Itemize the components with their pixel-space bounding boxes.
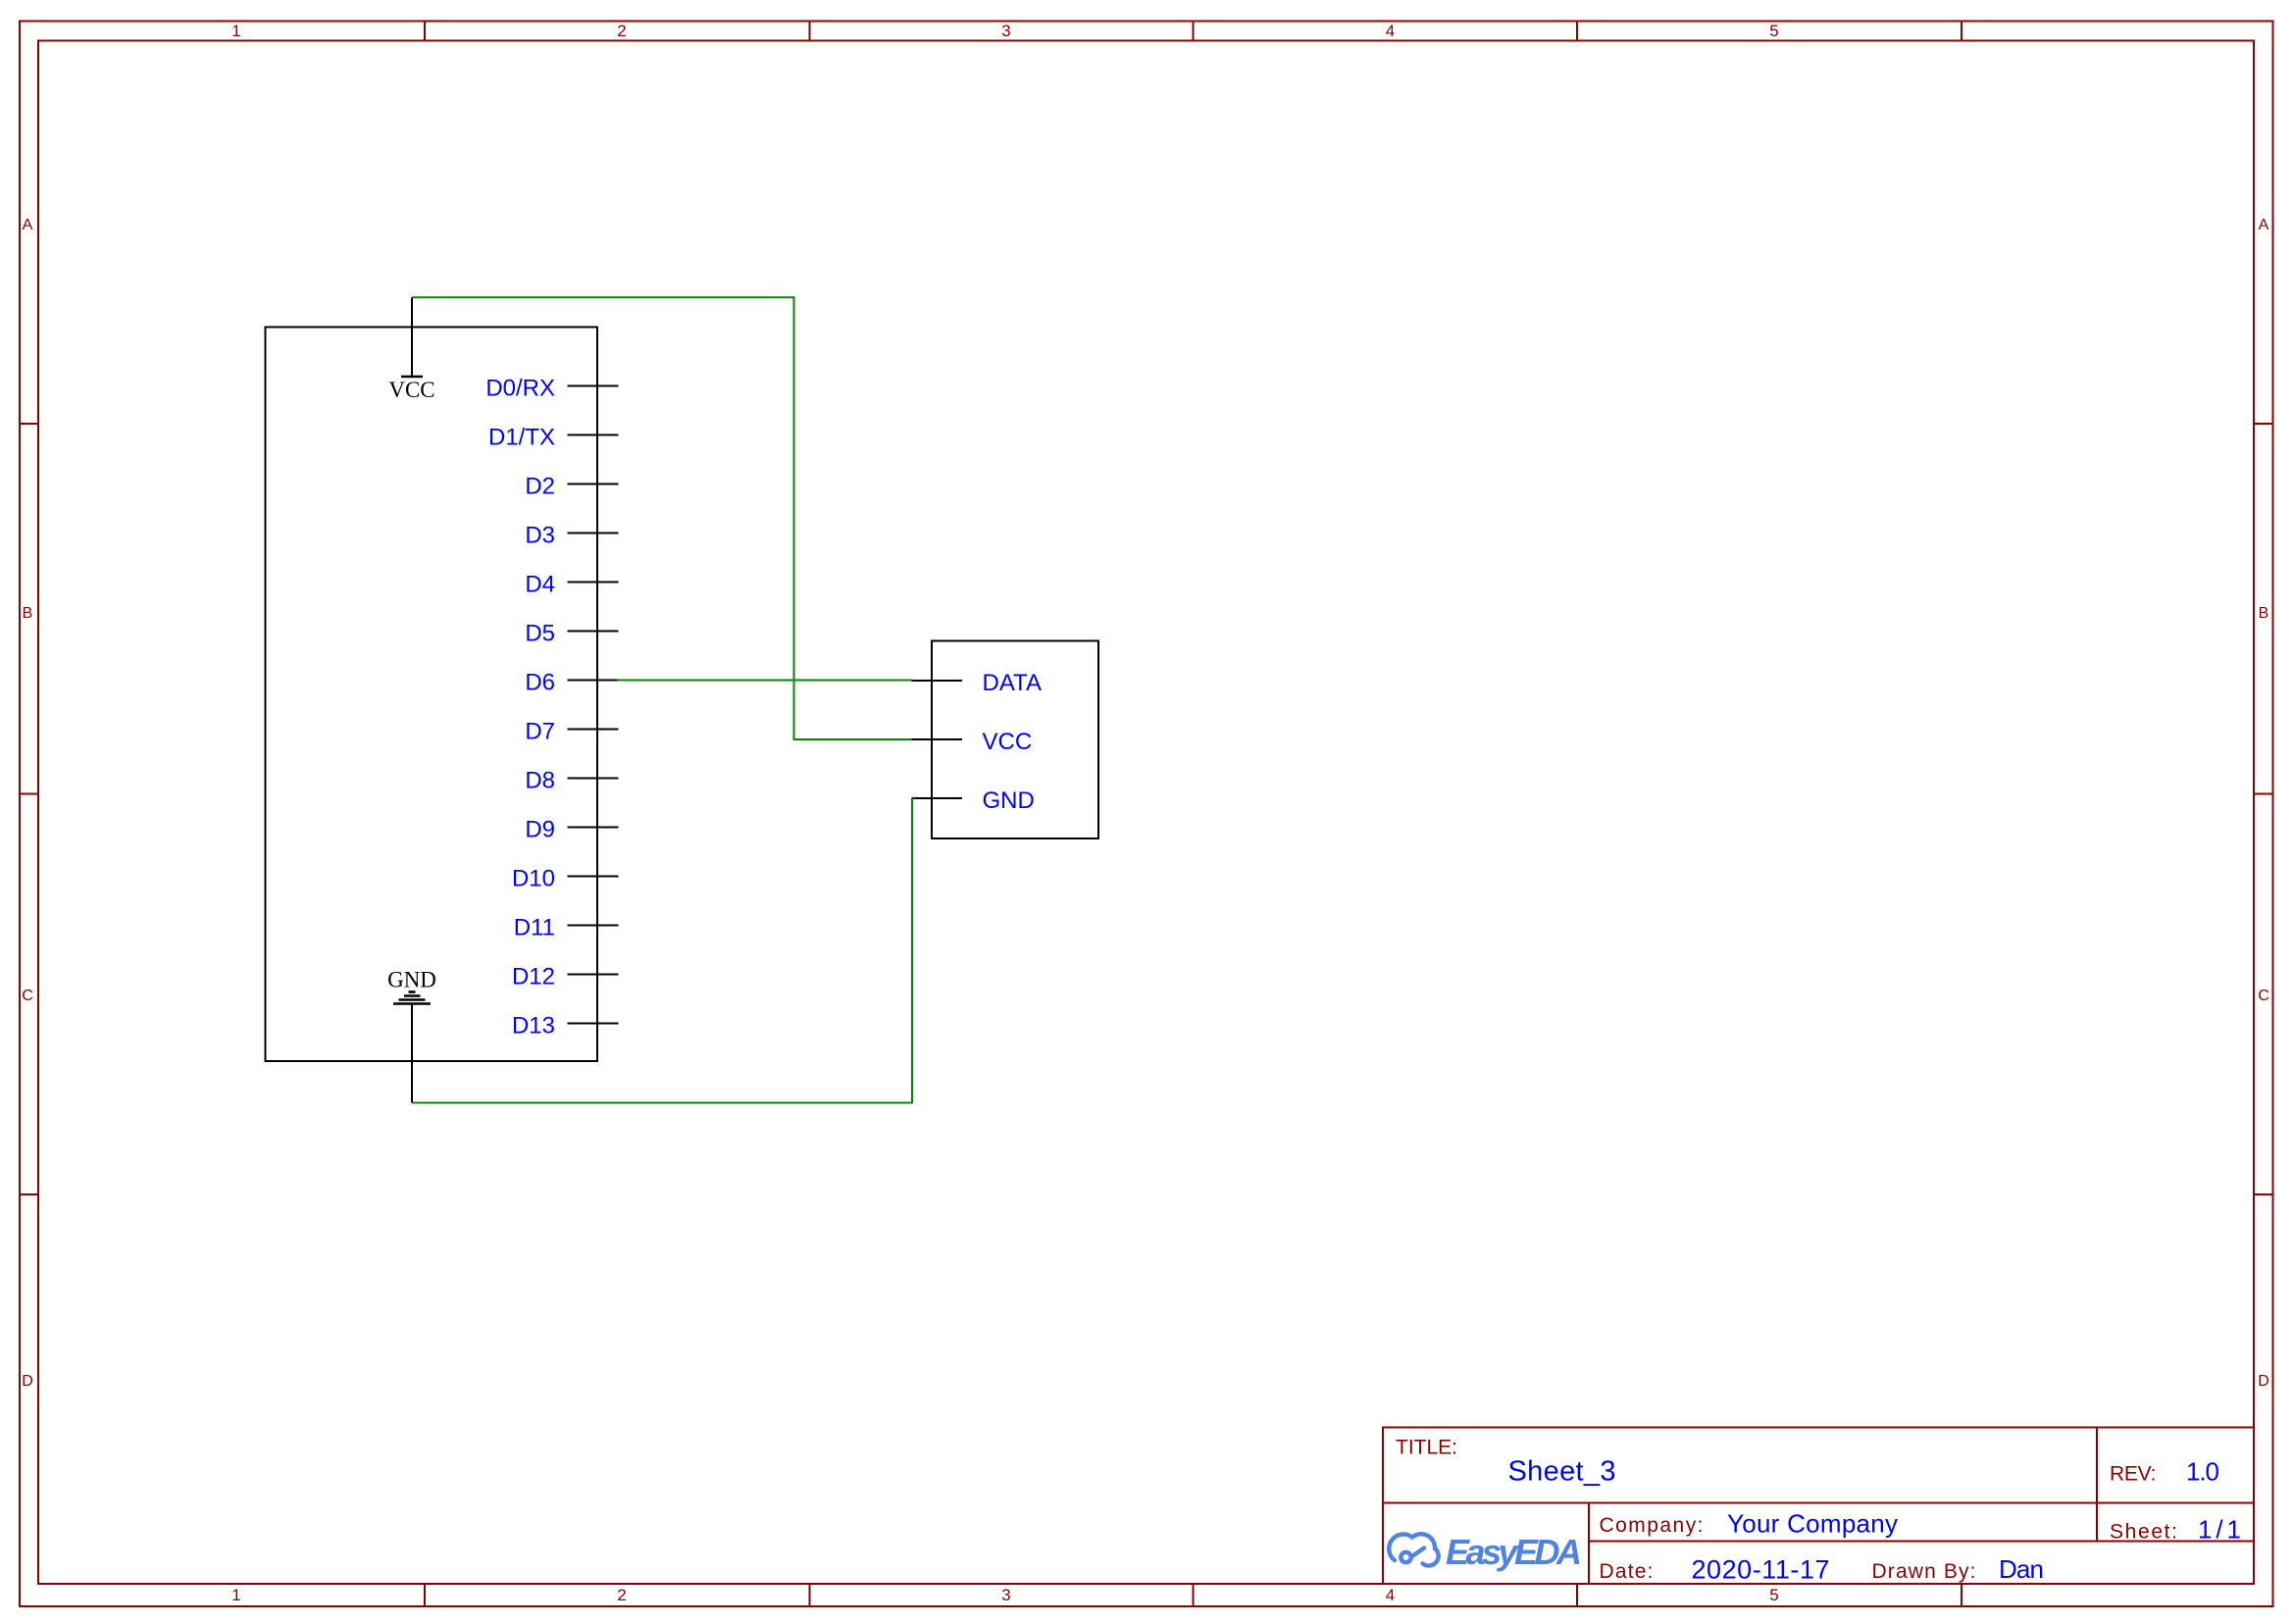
svg-text:D9: D9 [525,817,555,843]
title block divider under TITLE row [1383,1502,2254,1504]
column ticks top [425,22,1962,41]
svg-text:VCC: VCC [983,729,1033,755]
svg-text:A: A [23,217,33,233]
title block divider under Company row [1589,1541,2254,1543]
svg-text:2: 2 [617,22,626,40]
pin D12 [512,964,619,990]
row ticks left [20,424,38,1194]
svg-text:TITLE:: TITLE: [1396,1437,1457,1459]
wire GND net [412,798,912,1103]
svg-text:2: 2 [617,1586,626,1604]
pin D10 [512,866,619,892]
svg-text:B: B [2259,605,2269,622]
svg-text:D12: D12 [512,964,555,990]
svg-text:D8: D8 [525,768,555,794]
pin D11 [514,915,619,941]
svg-text:B: B [23,605,33,622]
row labels right [2258,217,2269,1390]
pin DATA of U2 [912,670,1042,696]
svg-text:5: 5 [1769,22,1778,40]
svg-text:DATA: DATA [983,670,1042,696]
wire D6 to DATA [618,680,912,682]
svg-text:D7: D7 [525,719,555,745]
svg-text:Sheet_3: Sheet_3 [1508,1456,1616,1488]
row labels left [22,217,33,1390]
pin D13 [512,1013,619,1040]
svg-text:D: D [22,1373,33,1390]
svg-text:Date:: Date: [1600,1560,1654,1583]
column ticks bottom [425,1584,1962,1606]
pin D0/RX [485,376,618,402]
svg-text:3: 3 [1001,1586,1010,1604]
ground symbol GND [387,968,436,1103]
column labels top [231,22,1778,40]
svg-text:Company:: Company: [1600,1514,1704,1537]
title block divider right of logo cell [1588,1503,1590,1585]
pin D7 [525,719,618,745]
svg-text:4: 4 [1386,22,1395,40]
svg-text:1: 1 [231,22,240,40]
svg-text:3: 3 [1001,22,1010,40]
pin D9 [525,817,618,843]
row ticks right [2254,424,2273,1194]
svg-text:Dan: Dan [1999,1554,2044,1584]
svg-text:D4: D4 [525,572,555,598]
svg-text:D11: D11 [514,915,555,941]
pin VCC of U2 [912,729,1033,755]
svg-text:D5: D5 [525,621,555,647]
pin D4 [525,572,618,598]
svg-text:1/1: 1/1 [2198,1515,2241,1545]
pin D6 [525,670,618,696]
svg-text:2020-11-17: 2020-11-17 [1692,1555,1830,1585]
pin D1/TX [488,425,619,451]
power flag VCC [388,297,434,402]
svg-text:VCC: VCC [388,378,434,402]
title block divider left of REV/Sheet cells [2096,1428,2098,1542]
svg-text:GND: GND [387,968,436,992]
svg-text:A: A [2259,217,2269,233]
svg-text:D2: D2 [525,474,555,500]
pin D8 [525,768,618,794]
svg-text:REV:: REV: [2110,1463,2157,1486]
svg-text:D: D [2258,1373,2269,1390]
svg-text:Your Company: Your Company [1727,1509,1898,1539]
wire VCC net [412,297,912,739]
column labels bottom [231,1586,1778,1604]
svg-text:D10: D10 [512,866,555,892]
title block outline [1383,1428,2254,1585]
pin D3 [525,523,618,549]
svg-text:C: C [22,988,33,1004]
svg-text:GND: GND [983,787,1035,814]
svg-text:C: C [2258,988,2269,1004]
svg-text:D3: D3 [525,523,555,549]
pin D5 [525,621,618,647]
svg-text:1: 1 [231,1586,240,1604]
svg-text:4: 4 [1386,1586,1395,1604]
IC U1 body (Arduino digital header block) [266,328,598,1062]
pin GND of U2 [912,787,1035,814]
svg-text:D1/TX: D1/TX [488,425,555,451]
EasyEDA logo cloud icon [1389,1534,1438,1565]
svg-text:D0/RX: D0/RX [485,376,555,402]
svg-text:EasyEDA: EasyEDA [1446,1532,1582,1572]
svg-text:D6: D6 [525,670,555,696]
sensor U2 body (DATA/VCC/GND module) [932,641,1098,839]
pin D2 [525,474,618,500]
svg-text:D13: D13 [512,1013,555,1040]
svg-text:1.0: 1.0 [2186,1457,2219,1487]
svg-text:5: 5 [1769,1586,1778,1604]
svg-text:Sheet:: Sheet: [2110,1521,2177,1544]
svg-text:Drawn By:: Drawn By: [1872,1560,1976,1583]
